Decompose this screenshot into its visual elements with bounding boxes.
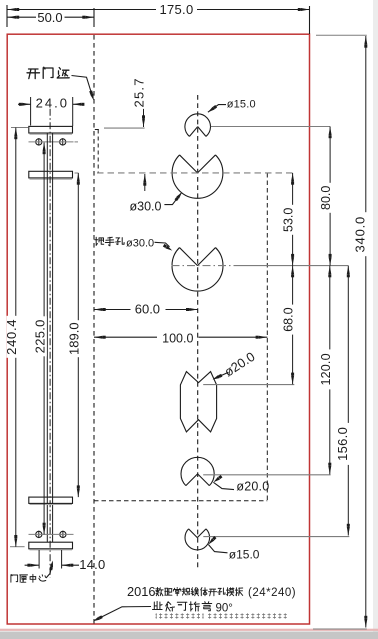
- svg-text:ø15.0: ø15.0: [227, 99, 256, 111]
- faceplate bottom bar: [29, 542, 73, 549]
- note: can be folded 90 degrees here: [153, 601, 163, 609]
- dim 50.0 top: [93, 8, 95, 27]
- svg-text:225.0: 225.0: [32, 319, 47, 353]
- inner dashed box right edge: [266, 173, 268, 501]
- fold line x=94 dashed: [93, 35, 95, 624]
- svg-text:50.0: 50.0: [37, 10, 62, 25]
- label kai-men-bian (door opening side): [27, 69, 40, 79]
- dim 60.0: [94, 309, 131, 311]
- faceplate top bar: [29, 126, 73, 133]
- hole3 centerline dash-dot + solid to dims: [172, 265, 237, 267]
- svg-text:24.0: 24.0: [36, 96, 69, 111]
- dim 14.0: [38, 550, 40, 569]
- hole1 centerline stub to 25.7: [104, 127, 145, 129]
- svg-text:90°: 90°: [216, 603, 233, 615]
- svg-text:240.4: 240.4: [4, 319, 19, 355]
- svg-text:14.0: 14.0: [79, 557, 105, 572]
- screw hole left bottom: [36, 531, 42, 537]
- dim 25.7: [143, 78, 145, 127]
- screw centerline bottom: [29, 533, 74, 535]
- inner dashed box bottom edge: [94, 500, 267, 502]
- dim 80.0: [329, 127, 331, 266]
- svg-text:ø30.0: ø30.0: [126, 237, 154, 249]
- dim 340.0: [316, 34, 367, 36]
- screw hole left top: [36, 139, 42, 145]
- leader handle hole: [155, 242, 170, 247]
- screw centerline top: [29, 141, 74, 143]
- leader fold note: [97, 607, 152, 620]
- svg-text:25.7: 25.7: [132, 77, 147, 107]
- hole1 centerline to 80 dim: [211, 126, 330, 128]
- hole5 centerline to 120 dim: [203, 474, 330, 476]
- svg-text:ø30.0: ø30.0: [130, 200, 162, 214]
- faceplate channel lines: [46, 133, 48, 542]
- page bottom edge shading: [0, 629, 378, 631]
- hole 5 circle φ20 (mouth down): [181, 457, 214, 485]
- svg-text:(24*240): (24*240): [248, 587, 296, 599]
- dim 156.0: [347, 266, 349, 536]
- dim 68.0: [292, 266, 294, 385]
- svg-text:175.0: 175.0: [159, 2, 193, 17]
- screw hole right bottom: [60, 531, 66, 537]
- svg-text:53.0: 53.0: [281, 208, 295, 232]
- faceplate bar 2: [29, 171, 73, 178]
- vertical centerline through holes: [197, 95, 199, 571]
- label men-hou-zhong-xin (door thickness center): [11, 575, 18, 583]
- svg-text:120.0: 120.0: [319, 353, 333, 385]
- leader φ15.0: [208, 105, 226, 113]
- label 把手孔 ø30.0: [95, 237, 104, 245]
- inner dashed box top-left stub: [95, 130, 99, 132]
- faceplate bar 3: [29, 497, 73, 503]
- hole 6 circle φ15 (mouth up): [185, 529, 210, 550]
- leader φ15.0: [208, 545, 227, 553]
- hole 2 circle φ30 (mouth up): [172, 155, 223, 198]
- leader φ30.0: [164, 193, 181, 204]
- svg-text:156.0: 156.0: [335, 427, 350, 461]
- hole6 centerline to 156 dim: [203, 536, 349, 538]
- hole4 centerline to 68 dim: [203, 384, 294, 386]
- dim 189.0: [75, 172, 79, 174]
- leader φ20.0: [213, 482, 234, 489]
- dim 24.0: [18, 103, 31, 105]
- svg-text:189.0: 189.0: [67, 322, 82, 355]
- svg-text:100.0: 100.0: [162, 331, 193, 345]
- faceplate centerline dash-dot: [49, 109, 51, 578]
- red template border: [7, 34, 309, 624]
- svg-text:68.0: 68.0: [281, 307, 295, 331]
- svg-text:340.0: 340.0: [353, 216, 368, 253]
- hole 3 circle φ30 handle hole (mouth up): [172, 248, 223, 292]
- dim 175.0 top: [6, 5, 8, 27]
- page right edge shading: [373, 0, 378, 639]
- dim 100.0: [94, 336, 157, 338]
- hole 1 circle φ15 (mouth down): [185, 114, 211, 137]
- dim 120.0: [329, 266, 331, 475]
- svg-text:60.0: 60.0: [135, 301, 160, 316]
- svg-text:2016: 2016: [127, 584, 155, 599]
- dim 53.0: [292, 173, 294, 266]
- leader to fold line: [72, 76, 93, 97]
- svg-text:80.0: 80.0: [319, 186, 333, 210]
- tiny footnote row: [156, 613, 157, 619]
- hole2 centerline dashed horizontal: [97, 172, 293, 174]
- svg-text:ø15.0: ø15.0: [229, 547, 260, 561]
- screw hole right top: [60, 139, 66, 145]
- dim 225.0: [43, 143, 45, 535]
- dim 240.4: [11, 127, 28, 129]
- leader to centerline: [46, 564, 52, 579]
- leader φ20.0 slanted: [214, 372, 229, 379]
- hole 4 slot (double φ20 with V notches): [180, 372, 216, 432]
- svg-text:ø20.0: ø20.0: [236, 480, 269, 494]
